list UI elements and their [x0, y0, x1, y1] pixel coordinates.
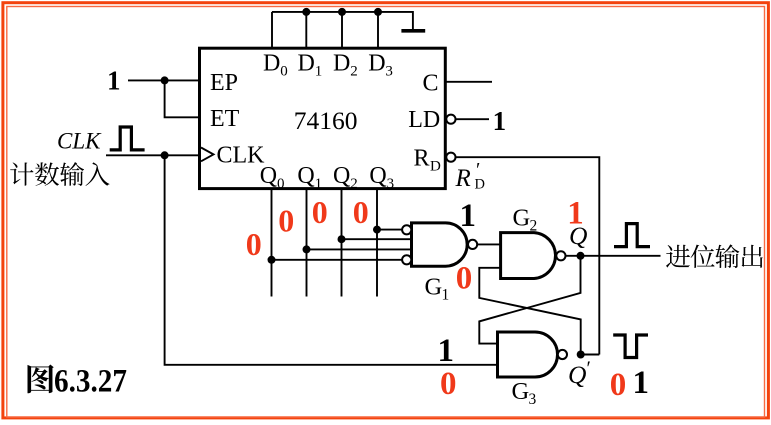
svg-text:EP: EP: [210, 70, 238, 96]
svg-text:2: 2: [350, 64, 358, 80]
svg-text:2: 2: [350, 176, 358, 192]
svg-text:D: D: [333, 51, 350, 77]
svg-text:0: 0: [456, 261, 473, 297]
svg-text:R: R: [414, 146, 430, 172]
svg-text:G: G: [512, 378, 530, 405]
svg-text:′: ′: [587, 358, 591, 380]
svg-text:R: R: [455, 165, 471, 192]
svg-text:1: 1: [460, 198, 477, 234]
svg-text:74160: 74160: [294, 106, 358, 135]
svg-text:Q: Q: [297, 163, 314, 189]
svg-text:2: 2: [530, 218, 538, 235]
svg-text:Q: Q: [260, 163, 277, 189]
svg-text:3: 3: [387, 176, 395, 192]
svg-text:G: G: [513, 205, 531, 232]
svg-text:0: 0: [246, 226, 262, 262]
svg-text:LD: LD: [408, 107, 440, 133]
svg-text:Q: Q: [333, 163, 350, 189]
svg-text:1: 1: [567, 195, 584, 231]
svg-text:0: 0: [440, 366, 457, 402]
svg-text:0: 0: [610, 367, 627, 403]
svg-text:CLK: CLK: [217, 142, 266, 168]
svg-text:3: 3: [529, 391, 537, 408]
svg-text:0: 0: [278, 202, 294, 238]
svg-text:D: D: [430, 159, 441, 175]
svg-text:D: D: [263, 51, 280, 77]
svg-text:1: 1: [633, 365, 650, 401]
svg-text:3: 3: [385, 64, 393, 80]
svg-text:1: 1: [315, 64, 323, 80]
svg-text:D: D: [368, 51, 385, 77]
svg-text:ET: ET: [210, 106, 240, 132]
svg-text:1: 1: [493, 106, 507, 136]
svg-text:D: D: [298, 51, 315, 77]
svg-text:G: G: [425, 274, 443, 301]
svg-text:0: 0: [277, 176, 285, 192]
svg-text:C: C: [423, 71, 439, 97]
svg-text:1: 1: [442, 287, 450, 304]
svg-text:D: D: [475, 177, 485, 193]
svg-text:Q: Q: [568, 360, 586, 389]
svg-text:1: 1: [438, 333, 455, 369]
svg-text:6.3.27: 6.3.27: [54, 364, 127, 400]
svg-text:CLK: CLK: [57, 129, 102, 154]
svg-text:Q: Q: [369, 163, 386, 189]
svg-text:0: 0: [312, 194, 328, 230]
svg-text:0: 0: [353, 194, 369, 230]
svg-text:1: 1: [107, 66, 121, 96]
svg-text:1: 1: [315, 176, 323, 192]
svg-text:0: 0: [280, 64, 288, 80]
